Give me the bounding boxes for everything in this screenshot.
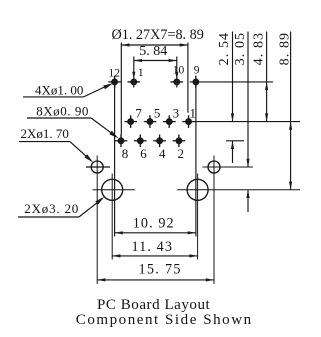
pin 6 [134,135,147,148]
pin 11 [128,79,141,84]
svg-text:Ø1. 27X7=8. 89: Ø1. 27X7=8. 89 [112,27,204,43]
mounting hole right 3.20 [177,174,300,260]
pin 12 [108,76,121,89]
svg-text:4: 4 [159,146,166,161]
extension line pin9 column down [195,82,197,237]
extension line pin8 column [120,43,122,136]
svg-text:10. 92: 10. 92 [133,216,175,232]
dimension line 5.84 [134,60,177,62]
pin 3 [163,115,176,128]
pin 4 [153,135,166,148]
svg-text:5. 84: 5. 84 [139,44,167,59]
svg-text:4Xø1. 00: 4Xø1. 00 [35,83,83,98]
svg-text:10: 10 [173,64,185,76]
svg-text:2: 2 [178,146,185,161]
svg-text:9: 9 [194,65,200,77]
svg-text:Component Side Shown: Component Side Shown [76,312,253,328]
svg-text:8: 8 [122,146,129,161]
svg-text:6: 6 [140,146,147,161]
pin 7 [124,115,137,128]
shield hole left 1.70 [86,156,110,285]
extension line pin1 column [187,43,189,113]
pin 5 [144,115,157,128]
svg-text:3: 3 [173,106,180,121]
extension line pin12 column down [114,76,116,237]
dimension line 10.92 [115,232,196,234]
extension line upper pin row right [195,121,300,123]
pin 1 [182,115,195,128]
pin 9 [193,76,198,89]
pin 10 [171,79,184,84]
svg-text:1: 1 [138,67,144,79]
pin 2 [173,135,186,148]
extension line lower pin row right stub [226,140,244,142]
extension line pin11 with down arrow [133,57,135,88]
svg-text:2Xø1. 70: 2Xø1. 70 [21,126,69,141]
svg-text:PC Board Layout: PC Board Layout [97,297,211,313]
svg-text:3. 05: 3. 05 [233,32,248,66]
shield hole right 1.70 [203,156,254,285]
svg-text:7: 7 [135,106,142,121]
mounting hole left 3.20 [93,174,135,260]
svg-text:8Xø0. 90: 8Xø0. 90 [36,104,89,119]
dimension line 11.43 [112,255,197,257]
dimension line 8.89 top [121,44,188,46]
svg-text:4. 83: 4. 83 [251,32,266,66]
dimension line 15.75 [97,279,214,281]
extension line pin9 row right [190,81,273,83]
svg-text:15. 75: 15. 75 [139,262,182,278]
pin 8 [115,135,128,148]
svg-text:1: 1 [190,106,197,121]
svg-text:2Xø3. 20: 2Xø3. 20 [24,201,79,216]
extension line pin10 with down arrow [176,57,178,88]
svg-text:11. 43: 11. 43 [132,239,174,255]
svg-text:5: 5 [154,106,161,121]
svg-text:2. 54: 2. 54 [217,32,232,66]
